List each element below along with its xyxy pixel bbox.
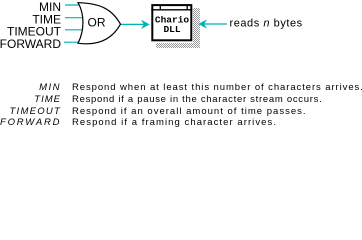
window title bar bottom line — [151, 9, 192, 11]
wire MIN input — [65, 4, 84, 6]
legend desc FORWARD — [72, 118, 277, 128]
svg-text:FORWARD: FORWARD — [0, 37, 61, 51]
Chario DLL window box — [152, 5, 191, 40]
svg-text:DLL: DLL — [163, 24, 180, 35]
wire OR output — [121, 23, 144, 25]
wire reads n bytes — [204, 23, 227, 25]
legend desc MIN — [72, 83, 362, 93]
window title bar divider right — [186, 5, 188, 10]
legend term MIN — [0, 83, 61, 93]
legend desc TIMEOUT — [72, 107, 307, 117]
window title bar divider left — [159, 5, 161, 10]
legend term TIME — [0, 95, 61, 105]
svg-text:OR: OR — [88, 16, 106, 30]
legend desc TIME — [72, 95, 322, 105]
OR gate U1 — [78, 3, 121, 44]
legend term FORWARD — [0, 118, 61, 128]
wire TIME input — [65, 17, 84, 19]
wire TIMEOUT input — [65, 29, 84, 31]
arrowhead from reads — [199, 20, 206, 27]
arrowhead to DLL box — [142, 21, 149, 28]
DLL box shadow — [156, 8, 200, 48]
svg-text:reads n bytes: reads n bytes — [230, 18, 303, 30]
legend term TIMEOUT — [0, 107, 61, 117]
wire FORWARD input — [64, 41, 84, 43]
